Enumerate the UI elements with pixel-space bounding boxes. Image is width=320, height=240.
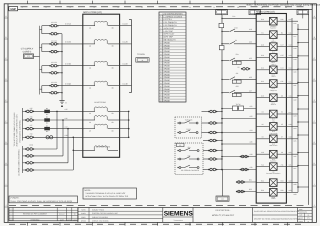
terminal box TO MFB bbox=[136, 53, 149, 62]
GMP logo box bbox=[9, 7, 18, 12]
note box bottom left bbox=[9, 196, 78, 203]
svg-text:SPARE: SPARE bbox=[164, 99, 171, 102]
svg-text:A3: A3 bbox=[307, 215, 309, 217]
svg-text:CB SPRING CHARGED: CB SPRING CHARGED bbox=[181, 169, 200, 172]
svg-text:TO MULTICORE CABLE 4CX2.5 SQ.M: TO MULTICORE CABLE 4CX2.5 SQ.MM bbox=[13, 112, 16, 146]
svg-text:A21: A21 bbox=[249, 105, 252, 108]
svg-text:C1-1A: C1-1A bbox=[65, 23, 71, 26]
svg-text:9: 9 bbox=[213, 6, 214, 9]
terminal pair TB6 bbox=[203, 158, 217, 161]
svg-text:8: 8 bbox=[189, 6, 190, 9]
ground CT earthing point E bbox=[59, 101, 67, 108]
label spare group bbox=[29, 144, 33, 147]
inductor CT input winding L3 bbox=[83, 61, 120, 69]
svg-text:SANJIV TYAGI: SANJIV TYAGI bbox=[92, 209, 105, 212]
contact 43 branch to BI-2 bbox=[221, 72, 256, 83]
wire CT Y S2 to earth bus bbox=[58, 51, 63, 52]
spare CT terminal pair row 3 bbox=[23, 162, 35, 165]
spare cores label (rotated) bbox=[17, 149, 20, 176]
CT metering terminal pair row 4 bbox=[23, 133, 35, 139]
svg-text:52: 52 bbox=[179, 144, 181, 147]
svg-text:C1-4B: C1-4B bbox=[122, 82, 128, 85]
revision table bbox=[8, 208, 77, 222]
svg-text:L3-1 CB(N)LTH: L3-1 CB(N)LTH bbox=[164, 21, 178, 24]
terminal pair on wire A30 bbox=[240, 168, 249, 171]
svg-text:SHEET: SHEET bbox=[298, 221, 303, 223]
shorting link K3 bbox=[44, 124, 50, 133]
terminal pair TB2 bbox=[202, 122, 218, 125]
svg-text:A30: A30 bbox=[249, 166, 252, 169]
svg-text:4: 4 bbox=[93, 6, 94, 9]
module U8 BI-1 52a (crossed block) bbox=[256, 110, 286, 122]
wire BI input A22 bbox=[221, 115, 256, 119]
svg-text:SPARE: SPARE bbox=[164, 96, 171, 99]
svg-text:A15: A15 bbox=[64, 108, 67, 111]
svg-text:SPARE: SPARE bbox=[164, 53, 171, 56]
SIEMENS logo bbox=[163, 208, 194, 223]
multicore cable label (rotated) bbox=[13, 112, 21, 146]
svg-text:A20: A20 bbox=[249, 41, 252, 44]
wire BI input A24 bbox=[221, 129, 256, 133]
wire spare row 4 to tap vertical bbox=[33, 137, 73, 170]
terminal link box at top of DC bus bbox=[216, 10, 228, 15]
contact 43R branch to BI-3 bbox=[221, 85, 256, 96]
svg-text:MCPU CT, PT & BI CKT: MCPU CT, PT & BI CKT bbox=[212, 214, 235, 217]
svg-text:A1: A1 bbox=[221, 198, 223, 201]
label 1A spare core bbox=[96, 145, 111, 148]
svg-text:SPARE: SPARE bbox=[164, 44, 171, 47]
wire module U7 output bbox=[286, 97, 298, 99]
terminal pair TB1 bbox=[202, 110, 218, 113]
CT metering terminal pair row 1 bbox=[23, 107, 35, 113]
svg-text:SPARE: SPARE bbox=[164, 94, 171, 97]
svg-text:A25: A25 bbox=[249, 76, 252, 79]
CT B-phase terminals S2 (pair) bbox=[42, 72, 59, 75]
svg-text:7: 7 bbox=[165, 6, 166, 9]
svg-text:L3-2 CB(N)LTH: L3-2 CB(N)LTH bbox=[164, 24, 178, 27]
contact CB 52a bbox=[177, 146, 199, 152]
terminal box CS bbox=[24, 54, 34, 59]
svg-text:C1-2B: C1-2B bbox=[122, 41, 128, 44]
CT R-phase terminals S2 (pair) bbox=[42, 32, 59, 35]
wire DC supply to power module bbox=[221, 15, 256, 19]
CT R-phase terminals S1 (pair) bbox=[42, 21, 59, 27]
svg-text:(FOR BUS PT SUPPLY SPROTN CKT): (FOR BUS PT SUPPLY SPROTN CKT) bbox=[16, 114, 19, 147]
CT N-phase terminals S2 (pair) bbox=[42, 91, 59, 94]
node CT earth bus bbox=[61, 34, 63, 101]
svg-text:NAME: NAME bbox=[73, 219, 77, 221]
terminal link box top middle bbox=[249, 10, 261, 15]
wire module U3 output bbox=[286, 46, 298, 48]
bracket MFB connector bbox=[129, 20, 131, 93]
wire module U1 output bbox=[286, 20, 298, 22]
svg-text:C1-3A: C1-3A bbox=[65, 63, 71, 66]
drawing reference cells bbox=[253, 210, 302, 221]
module U13 BI-5 SPARE (crossed block) bbox=[256, 179, 286, 190]
svg-text:B-PH FAULT: B-PH FAULT bbox=[164, 33, 176, 36]
bracket CT group B bbox=[40, 66, 42, 73]
svg-text:A27: A27 bbox=[249, 89, 252, 92]
node output rail 1 bbox=[291, 18, 293, 192]
svg-text:43L: 43L bbox=[236, 72, 239, 75]
svg-text:POPPRA 70/7/02 GANGOH U/P: POPPRA 70/7/02 GANGOH U/P bbox=[92, 212, 119, 215]
terminal pair on wire B33 bbox=[236, 190, 245, 193]
wire BI input A26 bbox=[221, 141, 256, 145]
wire module U10 output bbox=[286, 138, 298, 140]
svg-text:86: 86 bbox=[235, 39, 237, 42]
svg-text:B33: B33 bbox=[249, 188, 252, 191]
svg-text:A-PH FAULT: A-PH FAULT bbox=[164, 27, 176, 30]
top border zone number strip bbox=[9, 6, 306, 9]
svg-text:SPARE: SPARE bbox=[164, 79, 171, 82]
wire CT N S2 to earth bus bbox=[58, 92, 63, 93]
svg-text:52a: 52a bbox=[236, 53, 239, 56]
svg-text:TCS2: TCS2 bbox=[186, 128, 190, 131]
CT Y-phase terminals S1 (pair) bbox=[42, 39, 59, 45]
shorting link K2 bbox=[44, 116, 50, 125]
svg-text:L1 SPRING CHARGE: L1 SPRING CHARGE bbox=[164, 15, 183, 18]
svg-text:1A SPARE CORE: 1A SPARE CORE bbox=[96, 145, 111, 148]
svg-text:A19: A19 bbox=[249, 28, 252, 31]
pin labels right rail bbox=[289, 18, 297, 196]
wire CT B S1 to MCPU core input bbox=[58, 63, 83, 66]
terminal pair 52 aux bbox=[238, 66, 251, 70]
svg-text:10: 10 bbox=[237, 6, 239, 9]
terminal link box top right bbox=[297, 10, 309, 19]
wire module U2 output bbox=[286, 34, 298, 36]
svg-text:1A SPARE CORES (SHORTED): 1A SPARE CORES (SHORTED) bbox=[17, 149, 20, 176]
svg-text:SIEMENS: SIEMENS bbox=[164, 210, 194, 217]
wire module U12 output bbox=[286, 166, 298, 168]
svg-text:SPARE: SPARE bbox=[164, 50, 171, 53]
svg-text:C1-1B: C1-1B bbox=[122, 23, 128, 26]
CT metering terminal pair row 3 bbox=[23, 124, 35, 130]
inductor CT input winding L2 bbox=[83, 39, 120, 47]
fuse link box on DC bus lower bbox=[219, 46, 224, 50]
svg-text:* MARKED TERMINALS V/P+1,2 & 4: * MARKED TERMINALS V/P+1,2 & 4 ARE NOT bbox=[85, 192, 126, 195]
wire module U14 output bbox=[286, 191, 298, 193]
svg-text:CORE-2: CORE-2 bbox=[23, 50, 32, 53]
svg-text:GIRIJA 7/02 NOIDA: GIRIJA 7/02 NOIDA bbox=[92, 216, 109, 219]
svg-text:CT SUPPLY: CT SUPPLY bbox=[21, 47, 34, 50]
junctions spare-tap verticals on metering rows bbox=[56, 111, 74, 139]
terminal pair TB5 bbox=[203, 149, 217, 152]
relay box MCPU CORE 1 (CT inputs) bbox=[83, 11, 120, 157]
svg-text:APPLICABLE ONLY IN CW PANEL OF: APPLICABLE ONLY IN CW PANEL OF 220KV G/S bbox=[85, 195, 129, 198]
svg-text:SPARE: SPARE bbox=[164, 67, 171, 70]
contact TCS1 bbox=[177, 118, 198, 124]
module U14 GND (crossed block) bbox=[256, 189, 286, 200]
wire MCPU output 1 to MFB bracket bbox=[120, 23, 132, 26]
wire module U9 output bbox=[286, 125, 298, 127]
module U9 BI-2 TRIP PLUS (crossed block) bbox=[256, 123, 286, 135]
test link MD (open) bbox=[46, 136, 53, 139]
svg-text:SPARE: SPARE bbox=[164, 76, 171, 79]
module U3 BI-1 SUPPLY HEALTH (crossed block) bbox=[256, 43, 286, 54]
module U7 BO-4 SPARE (crossed block) bbox=[256, 94, 286, 106]
title block frame bbox=[78, 208, 312, 223]
right border zone letters bbox=[312, 15, 316, 207]
contact TCS2 bbox=[177, 128, 198, 134]
inductor CT input winding L4 bbox=[83, 81, 120, 89]
wire CT N S1 to MCPU core input bbox=[58, 82, 83, 85]
description cell bbox=[212, 208, 253, 223]
svg-text:TB ALL FOR CBWG & BO NO. SHALL: TB ALL FOR CBWG & BO NO. SHALL BE ASSIGN… bbox=[10, 200, 73, 203]
wire spare row 3 to tap vertical bbox=[33, 129, 68, 163]
svg-text:A24: A24 bbox=[249, 129, 252, 132]
wire TB2 to DC bus bbox=[217, 122, 223, 123]
svg-text:2: 2 bbox=[45, 6, 46, 9]
wire CT B S2 to earth bus bbox=[58, 72, 63, 73]
svg-text:52a: 52a bbox=[188, 146, 191, 149]
wire metering row 1 to MCPU bbox=[33, 108, 82, 111]
contact 52a branch to BI-1 bbox=[221, 53, 256, 64]
terminal pair on wire A28 bbox=[240, 155, 249, 158]
terminal box A1 bottom bbox=[216, 196, 229, 201]
svg-text:SPARE: SPARE bbox=[164, 82, 171, 85]
module U4 BO-1 TCS-1 (crossed block) bbox=[256, 54, 286, 66]
wire TB3 to DC bus bbox=[217, 132, 223, 133]
svg-text:Note:- TB Assembly and Ferule: Note:- TB Assembly and Ferule Standard m… bbox=[247, 4, 320, 7]
svg-text:(TO BUILDING CW PANEL): (TO BUILDING CW PANEL) bbox=[18, 120, 21, 143]
svg-text:SIZE: SIZE bbox=[299, 215, 302, 217]
wire MCPU output 3 to MFB bracket bbox=[120, 63, 132, 66]
wire metering row 3 to MCPU bbox=[33, 125, 82, 128]
wire BI input A28 bbox=[221, 153, 256, 157]
wire terminal box A1 to A30 bbox=[222, 170, 224, 197]
svg-text:A28: A28 bbox=[249, 153, 252, 156]
module U1 POWER SUPPLY (crossed block) bbox=[256, 17, 286, 29]
svg-text:GMP: GMP bbox=[10, 8, 16, 11]
relay box MCPU CORE modules bbox=[256, 11, 286, 204]
module U5 BO-2 TCS-2 (crossed block) bbox=[256, 66, 286, 78]
wire spare row 2 to tap vertical bbox=[33, 120, 63, 156]
svg-text:C1-2A: C1-2A bbox=[65, 41, 71, 44]
wire metering row 2 to MCPU bbox=[33, 117, 82, 120]
svg-text:(*) NOTE:: (*) NOTE: bbox=[11, 197, 20, 200]
wire TB5 to DC bus bbox=[217, 150, 223, 151]
svg-text:6: 6 bbox=[141, 6, 142, 9]
svg-text:SPARE: SPARE bbox=[164, 88, 171, 91]
contact branch to BI-1 supply health bbox=[221, 39, 256, 45]
wire TB7 to DC bus bbox=[217, 169, 223, 170]
inductor metering winding M1 bbox=[83, 107, 120, 115]
bracket CT group Y bbox=[40, 44, 42, 52]
terminal pair TB3 bbox=[202, 131, 218, 134]
svg-text:3: 3 bbox=[69, 6, 70, 9]
svg-text:SPARE: SPARE bbox=[164, 62, 171, 65]
CT N-phase terminals S1 (pair) bbox=[42, 81, 59, 87]
svg-text:L2 TCS-1: L2 TCS-1 bbox=[164, 18, 172, 21]
svg-text:1: 1 bbox=[21, 6, 22, 9]
CT B-phase terminals S1 (pair) bbox=[42, 61, 59, 67]
wire module U4 output bbox=[286, 56, 298, 58]
svg-text:C1-3B: C1-3B bbox=[122, 63, 128, 66]
CT SUPPLY CORE-2 label bbox=[21, 47, 34, 53]
svg-text:A17: A17 bbox=[64, 125, 67, 128]
wire metering common through box bbox=[83, 136, 120, 138]
wire TB1 to DC bus bbox=[217, 111, 223, 112]
svg-text:NTS: NTS bbox=[307, 218, 310, 220]
CT Y-phase terminals S2 (pair) bbox=[42, 50, 59, 53]
wire MCPU output 4 to MFB bracket bbox=[120, 82, 132, 85]
label GND module bbox=[271, 197, 276, 200]
svg-text:MCPU CORE(1/2): MCPU CORE(1/2) bbox=[83, 11, 102, 14]
svg-text:1: 1 bbox=[11, 216, 12, 219]
svg-text:APPD: APPD bbox=[67, 219, 71, 221]
svg-text:ISSUED: ISSUED bbox=[8, 219, 13, 221]
svg-text:SPARE: SPARE bbox=[164, 65, 171, 68]
note header top right bbox=[247, 4, 320, 7]
svg-text:SPARE: SPARE bbox=[164, 47, 171, 50]
node CT supply bus bbox=[39, 26, 41, 95]
svg-text:SPARE: SPARE bbox=[164, 59, 171, 62]
bracket CT group R bbox=[40, 26, 42, 34]
svg-text:L-PH TRIP: L-PH TRIP bbox=[164, 30, 174, 33]
terminal links on BI wire A21 bbox=[233, 103, 244, 111]
fuse link box on DC bus upper bbox=[219, 23, 224, 27]
svg-text:SPARE: SPARE bbox=[164, 41, 171, 44]
svg-text:J: J bbox=[314, 204, 315, 207]
svg-text:SCALE: SCALE bbox=[299, 218, 304, 220]
bottom border zone number strip bbox=[9, 206, 306, 225]
spare CT terminal pair row 1 bbox=[23, 148, 35, 151]
svg-text:CHECK 7/02 NOIDA: CHECK 7/02 NOIDA bbox=[92, 220, 109, 223]
svg-text:DESCRIPTION:-: DESCRIPTION:- bbox=[216, 209, 231, 212]
svg-text:11: 11 bbox=[261, 6, 263, 9]
svg-text:REVISED AS PER COMMENT: REVISED AS PER COMMENT bbox=[23, 213, 48, 216]
module U2 BI OPTO (crossed block) bbox=[256, 31, 286, 43]
module U12 CB SPRING CHARGED (crossed block) bbox=[256, 163, 286, 175]
svg-text:SPARE: SPARE bbox=[164, 56, 171, 59]
svg-text:GND: GND bbox=[271, 197, 276, 200]
terminal pair on wire B31 bbox=[236, 181, 245, 184]
wire TB6 to DC bus bbox=[217, 158, 223, 159]
centering tick marks bbox=[28, 1, 288, 226]
junctions on output rail 2 bbox=[297, 29, 299, 188]
module U10 BI-3 RMP PLUG (crossed block) bbox=[256, 135, 286, 147]
svg-text:C1-4A: C1-4A bbox=[65, 82, 71, 85]
bracket spare CT group bbox=[22, 146, 24, 173]
inductor metering winding M2 bbox=[83, 116, 120, 124]
module U11 BI-4 SUPPLY (crossed block) bbox=[256, 150, 286, 162]
svg-text:52: 52 bbox=[238, 66, 240, 69]
terminal pair TB7 bbox=[203, 168, 217, 171]
wire CT R S2 to earth bus bbox=[58, 33, 62, 35]
svg-text:A22: A22 bbox=[249, 115, 252, 118]
svg-text:3: 3 bbox=[11, 210, 12, 213]
wire MCPU output 2 to MFB bracket bbox=[120, 41, 132, 44]
svg-text:NOTE:-: NOTE:- bbox=[85, 189, 92, 192]
svg-text:31: 31 bbox=[308, 221, 310, 223]
svg-text:4: 4 bbox=[11, 208, 12, 211]
svg-text:A26: A26 bbox=[249, 141, 252, 144]
svg-text:A16: A16 bbox=[64, 117, 67, 120]
svg-text:B1+: B1+ bbox=[232, 15, 235, 18]
svg-text:2: 2 bbox=[11, 213, 12, 216]
inductor spare winding bbox=[73, 146, 119, 151]
svg-text:1A METERING: 1A METERING bbox=[94, 101, 107, 104]
title block signature cells bbox=[78, 208, 163, 223]
contact CB 52b bbox=[177, 154, 199, 160]
wire stubs to right border bbox=[298, 29, 309, 187]
svg-text:A23: A23 bbox=[249, 57, 252, 60]
spare CT terminal pair row 2 bbox=[23, 155, 35, 158]
left border zone letters bbox=[4, 15, 8, 207]
terminal pair TB4 bbox=[203, 139, 217, 142]
contact branch to BI opto supply bbox=[221, 27, 256, 32]
wire CS box to CT bus bbox=[34, 55, 40, 57]
module U6 BO-3 CB(N)LTH (crossed block) bbox=[256, 80, 286, 92]
wire module U8 output bbox=[286, 113, 298, 115]
svg-text:52b: 52b bbox=[188, 154, 191, 157]
node DC positive bus bbox=[221, 15, 223, 170]
shorting link K1 bbox=[44, 107, 50, 116]
wire TB4 to DC bus bbox=[217, 140, 223, 141]
switch box TCS (dashed) bbox=[175, 117, 202, 138]
spare CT terminal pair row 4 bbox=[23, 169, 35, 172]
wire module U11 output bbox=[286, 153, 298, 155]
contact CB spring charged bbox=[177, 165, 199, 172]
wire BI input A30 bbox=[221, 166, 256, 170]
bracket lower CT group bbox=[22, 108, 24, 141]
wire BI input B33 bbox=[238, 188, 256, 191]
wire CT Y S1 to MCPU core input bbox=[58, 41, 83, 44]
node metering output rail bbox=[120, 111, 130, 139]
svg-text:TO MFB: TO MFB bbox=[137, 53, 145, 56]
svg-text:LED CONFIGURATION: LED CONFIGURATION bbox=[163, 13, 184, 16]
svg-text:SPARE: SPARE bbox=[164, 70, 171, 73]
node output rail 2 (dotted junctions) bbox=[297, 24, 299, 192]
LED configuration table bbox=[159, 12, 186, 102]
inductor CT input winding L1 bbox=[83, 21, 120, 29]
wire module U13 output bbox=[286, 182, 298, 184]
note box middle bbox=[83, 188, 137, 199]
svg-text:A18: A18 bbox=[64, 134, 67, 137]
wire BI input B31 bbox=[238, 179, 256, 182]
svg-text:SPARE: SPARE bbox=[164, 85, 171, 88]
wire module U6 output bbox=[286, 83, 298, 85]
wire spare row 1 to tap vertical bbox=[33, 111, 57, 149]
svg-text:SPARE: SPARE bbox=[164, 73, 171, 76]
wire module U5 output bbox=[286, 69, 298, 71]
svg-text:SPARE: SPARE bbox=[164, 91, 171, 94]
CT metering terminal pair row 2 bbox=[23, 115, 35, 121]
switch box CB 52 (dashed) bbox=[175, 143, 203, 175]
svg-text:B31: B31 bbox=[249, 179, 252, 182]
inductor metering winding M3 bbox=[83, 124, 120, 132]
svg-text:J: J bbox=[6, 204, 7, 207]
sheet info mini table bbox=[298, 208, 313, 223]
svg-text:TCS1 52b: TCS1 52b bbox=[185, 118, 193, 121]
wire CT R S1 to MCPU core input bbox=[58, 23, 83, 26]
wire metering row 4 to MCPU bbox=[33, 134, 82, 137]
svg-text:5: 5 bbox=[117, 6, 118, 9]
bracket CT group N bbox=[40, 86, 42, 93]
svg-text:12: 12 bbox=[285, 6, 287, 9]
svg-text:B-PH TRIP: B-PH TRIP bbox=[164, 36, 174, 39]
label 1A metering section bbox=[94, 101, 107, 104]
svg-text:BB CB(N)LTH: BB CB(N)LTH bbox=[164, 38, 176, 41]
wire BI input A21 bbox=[221, 105, 256, 109]
